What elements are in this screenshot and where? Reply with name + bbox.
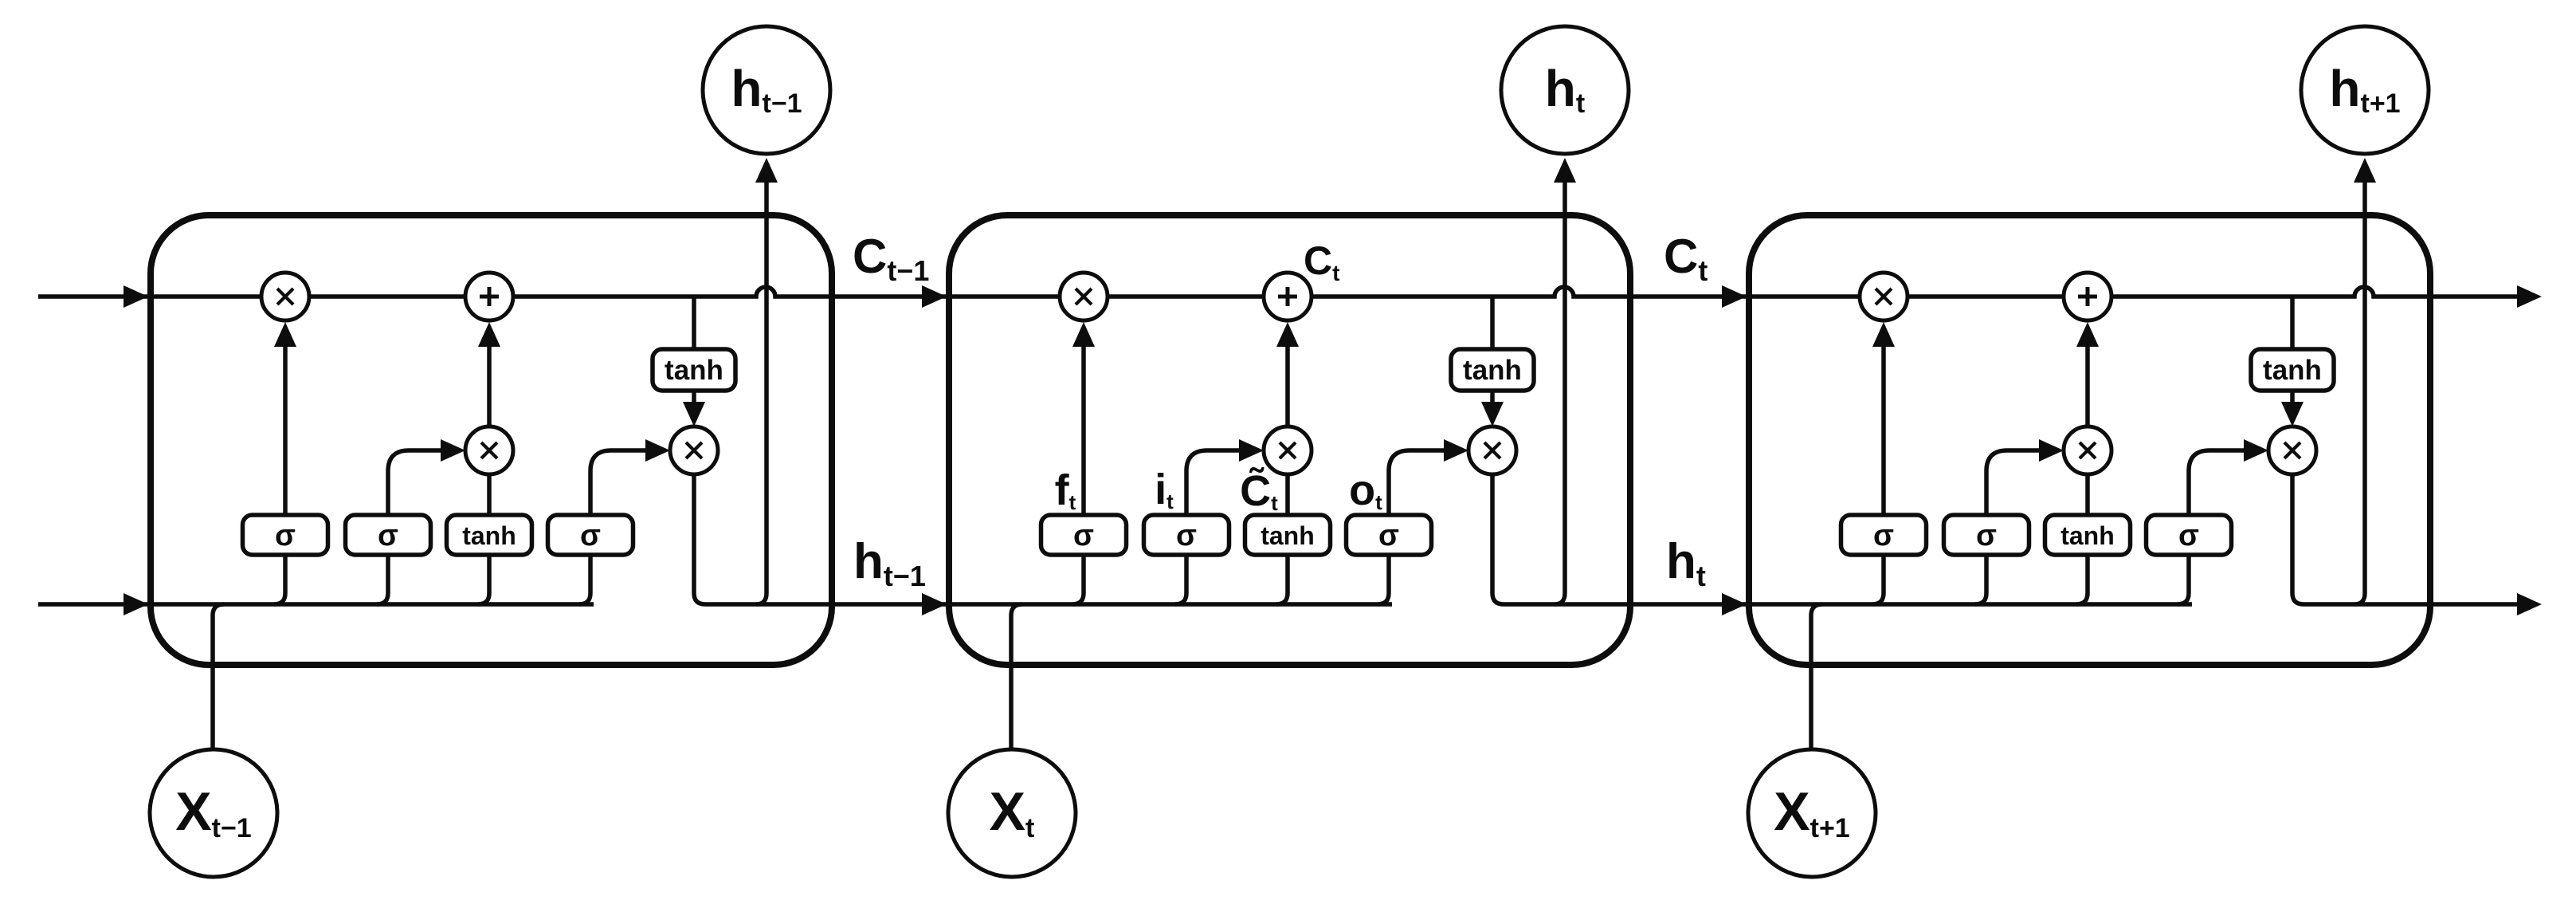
arrowhead: C line output at right edge bbox=[2517, 285, 2542, 308]
svg-text:ft: ft bbox=[1055, 466, 1076, 514]
wire: cell-state line C, span 2 (with crossing hop) bbox=[947, 287, 1747, 297]
wire: multiply node B riser to add node of cell 1 bbox=[487, 343, 492, 426]
multiply node A (forget) of cell 3 bbox=[1860, 273, 1907, 320]
add node of cell 2 bbox=[1264, 273, 1312, 320]
multiply node B (input) of cell 1 bbox=[465, 426, 513, 474]
svg-text:σ: σ bbox=[1073, 519, 1094, 552]
output gate box (sigma) of cell 2 bbox=[1347, 515, 1432, 555]
multiply node C (output) of cell 3 bbox=[2268, 426, 2316, 474]
wire: h output branch riser to h_t+1 circle, cell 3 bbox=[2354, 177, 2365, 604]
svg-text:tanh: tanh bbox=[665, 355, 723, 386]
wire: forget gate riser to multiply node of cell 3 bbox=[1881, 343, 1886, 515]
wire: h line tail into output gate of cell 1 bbox=[579, 555, 590, 604]
arrowhead: C line entering cell 3 bbox=[1722, 285, 1747, 308]
wire: output tanh to multiply node C of cell 1 bbox=[692, 391, 696, 403]
forget gate box (sigma) of cell 3 bbox=[1841, 515, 1927, 555]
wire: input gate link to multiply node B of cell 1 bbox=[388, 450, 443, 515]
arrowhead: h line entering cell 1 bbox=[124, 593, 148, 615]
svg-text:Ct: Ct bbox=[1664, 230, 1708, 287]
arrowhead: forget riser into multiply node, cell 3 bbox=[1872, 322, 1895, 347]
arrowhead: h line entering cell 2 bbox=[922, 593, 947, 615]
svg-text:Ct−1: Ct−1 bbox=[853, 230, 929, 287]
wire: candidate tanh riser to multiply node B of cell 3 bbox=[2085, 474, 2090, 515]
svg-text:it: it bbox=[1155, 466, 1174, 513]
arrowhead: h line entering cell 3 bbox=[1722, 593, 1747, 615]
candidate gate box (tanh) of cell 3 bbox=[2045, 515, 2131, 555]
output node h_t+1 bbox=[2301, 26, 2429, 154]
svg-text:tanh: tanh bbox=[2060, 521, 2115, 550]
svg-text:σ: σ bbox=[378, 519, 398, 552]
wire: C line branch down to output tanh of cell 2 bbox=[1490, 297, 1495, 349]
cell 3 LSTM block border bbox=[1749, 215, 2430, 665]
arrowhead: C line entering cell 1 bbox=[124, 285, 148, 308]
output node h_t bbox=[1501, 26, 1629, 154]
multiply node B (input) of cell 3 bbox=[2064, 426, 2111, 474]
wire: multiply node B riser to add node of cell 2 bbox=[1285, 343, 1290, 426]
svg-text:tanh: tanh bbox=[1261, 521, 1315, 550]
svg-text:ot: ot bbox=[1349, 466, 1382, 514]
wire: C line branch down to output tanh of cell 3 bbox=[2290, 297, 2295, 349]
svg-text:ht−1: ht−1 bbox=[853, 534, 926, 592]
wire: cell-state line C, span 3 (with crossing hop) bbox=[1747, 287, 2518, 297]
arrowhead: output gate link into multiply node C, cell 1 bbox=[645, 439, 670, 462]
multiply node A (forget) of cell 1 bbox=[261, 273, 309, 320]
multiply node B (input) of cell 2 bbox=[1264, 426, 1312, 474]
wire: h line tail into forget gate of cell 3 bbox=[1872, 555, 1884, 604]
output node h_t-1 bbox=[703, 26, 830, 154]
input gate box (sigma) of cell 1 bbox=[346, 515, 431, 555]
svg-text:σ: σ bbox=[275, 519, 296, 552]
arrowhead: input gate link into multiply node B, cell 2 bbox=[1239, 439, 1264, 462]
output gate box (sigma) of cell 1 bbox=[548, 515, 633, 555]
wire: h line tail into output gate of cell 2 bbox=[1378, 555, 1389, 604]
svg-text:σ: σ bbox=[1873, 519, 1894, 552]
wire: h line tail into forget gate of cell 2 bbox=[1072, 555, 1084, 604]
output tanh box of cell 3 bbox=[2251, 349, 2334, 391]
arrowhead: input gate link into multiply node B, cell 1 bbox=[441, 439, 465, 462]
arrowhead: tanh into multiply node C, cell 2 bbox=[1481, 402, 1504, 426]
wire: input X_t+1 riser into cell 3 bbox=[1811, 604, 1822, 750]
wire: output gate link to multiply node C of cell 2 bbox=[1389, 450, 1446, 515]
wire: h line tail into forget gate of cell 1 bbox=[274, 555, 285, 604]
wire: C line branch down to output tanh of cell 1 bbox=[692, 297, 696, 349]
forget gate box (sigma) of cell 1 bbox=[243, 515, 328, 555]
svg-text:tanh: tanh bbox=[1463, 355, 1522, 386]
input node X_t+1 bbox=[1748, 749, 1876, 877]
multiply node C (output) of cell 1 bbox=[670, 426, 718, 474]
wire: input gate link to multiply node B of cell 2 bbox=[1186, 450, 1241, 515]
svg-text:tanh: tanh bbox=[462, 521, 516, 550]
input gate box (sigma) of cell 2 bbox=[1144, 515, 1229, 555]
candidate gate box (tanh) of cell 2 bbox=[1245, 515, 1331, 555]
svg-text:σ: σ bbox=[1976, 519, 1997, 552]
cell 1 LSTM block border bbox=[151, 215, 832, 665]
arrowhead: forget riser into multiply node, cell 2 bbox=[1072, 322, 1095, 347]
output tanh box of cell 2 bbox=[1451, 349, 1534, 391]
svg-text:ht: ht bbox=[1666, 534, 1706, 592]
wire: multiply node C output down to h line, cell 3 bbox=[2292, 474, 2304, 604]
svg-text:σ: σ bbox=[1378, 519, 1399, 552]
wire: forget gate riser to multiply node of cell 2 bbox=[1081, 343, 1086, 515]
arrowhead: riser into add node, cell 1 bbox=[478, 322, 500, 347]
arrowhead: tanh into multiply node C, cell 3 bbox=[2281, 402, 2304, 426]
wire: h line tail into output gate of cell 3 bbox=[2178, 555, 2189, 604]
arrowhead: output gate link into multiply node C, cell 2 bbox=[1444, 439, 1468, 462]
wire: multiply node B riser to add node of cell 3 bbox=[2085, 343, 2090, 426]
wire: output gate link to multiply node C of cell 3 bbox=[2189, 450, 2246, 515]
wire: h line tail into candidate gate of cell 2 bbox=[1276, 555, 1288, 604]
arrowhead: C line entering cell 2 bbox=[922, 285, 947, 308]
wire: h output branch riser to h_t-1 circle, cell 1 bbox=[756, 177, 767, 604]
add node of cell 3 bbox=[2064, 273, 2111, 320]
wire: output gate link to multiply node C of cell 1 bbox=[590, 450, 648, 515]
arrowhead: riser into h_t-1 circle bbox=[755, 158, 778, 183]
wire: h output branch riser to h_t circle, cell 2 bbox=[1555, 177, 1565, 604]
input node X_t-1 bbox=[150, 749, 277, 877]
svg-text:tanh: tanh bbox=[2263, 355, 2322, 386]
wire: hidden-state line h, span 1 bbox=[38, 602, 594, 607]
arrowhead: input gate link into multiply node B, cell 3 bbox=[2039, 439, 2064, 462]
candidate gate box (tanh) of cell 1 bbox=[447, 515, 532, 555]
svg-text:σ: σ bbox=[1176, 519, 1197, 552]
wire: candidate tanh riser to multiply node B of cell 2 bbox=[1285, 474, 1290, 515]
wire: output tanh to multiply node C of cell 2 bbox=[1490, 391, 1495, 403]
arrowhead: riser into h_t+1 circle bbox=[2354, 158, 2376, 183]
svg-text:σ: σ bbox=[2178, 519, 2199, 552]
output gate box (sigma) of cell 3 bbox=[2147, 515, 2232, 555]
wire: multiply node C output down to h line, cell 2 bbox=[1492, 474, 1504, 604]
svg-text:Ct: Ct bbox=[1304, 238, 1339, 285]
wire: hidden-state line h, span 2 bbox=[705, 602, 1392, 607]
cell 2 LSTM block border bbox=[949, 215, 1630, 665]
arrowhead: tanh into multiply node C, cell 1 bbox=[683, 402, 705, 426]
wire: cell-state line C, span 1 (with crossing hop) bbox=[38, 287, 947, 297]
multiply node A (forget) of cell 2 bbox=[1060, 273, 1108, 320]
wire: candidate tanh riser to multiply node B of cell 1 bbox=[487, 474, 492, 515]
wire: hidden-state line h, span 3 bbox=[1504, 602, 2192, 607]
wire: output tanh to multiply node C of cell 3 bbox=[2290, 391, 2295, 403]
wire: h line tail into candidate gate of cell 3 bbox=[2076, 555, 2088, 604]
svg-text:σ: σ bbox=[580, 519, 601, 552]
arrowhead: h line output at right edge bbox=[2517, 593, 2542, 615]
input node X_t bbox=[948, 749, 1076, 877]
arrowhead: output gate link into multiply node C, cell 3 bbox=[2244, 439, 2268, 462]
arrowhead: forget riser into multiply node, cell 1 bbox=[274, 322, 296, 347]
wire: h line tail into input gate of cell 3 bbox=[1975, 555, 1986, 604]
output tanh box of cell 1 bbox=[653, 349, 735, 391]
add node of cell 1 bbox=[465, 273, 513, 320]
forget gate box (sigma) of cell 2 bbox=[1041, 515, 1127, 555]
wire: h line tail into input gate of cell 2 bbox=[1175, 555, 1186, 604]
wire: input gate link to multiply node B of cell 3 bbox=[1986, 450, 2041, 515]
wire: forget gate riser to multiply node of cell 1 bbox=[283, 343, 288, 515]
arrowhead: riser into h_t circle bbox=[1554, 158, 1576, 183]
arrowhead: riser into add node, cell 2 bbox=[1276, 322, 1299, 347]
wire: h line tail into candidate gate of cell 1 bbox=[478, 555, 489, 604]
wire: hidden-state line h, span 4 bbox=[2304, 602, 2518, 607]
wire: multiply node C output down to h line, cell 1 bbox=[694, 474, 705, 604]
multiply node C (output) of cell 2 bbox=[1468, 426, 1516, 474]
wire: h line tail into input gate of cell 1 bbox=[377, 555, 388, 604]
input gate box (sigma) of cell 3 bbox=[1944, 515, 2029, 555]
arrowhead: riser into add node, cell 3 bbox=[2076, 322, 2099, 347]
wire: input X_t riser into cell 2 bbox=[1011, 604, 1022, 750]
svg-text:C̃t: C̃t bbox=[1240, 467, 1278, 515]
wire: input X_t-1 riser into cell 1 bbox=[213, 604, 224, 750]
